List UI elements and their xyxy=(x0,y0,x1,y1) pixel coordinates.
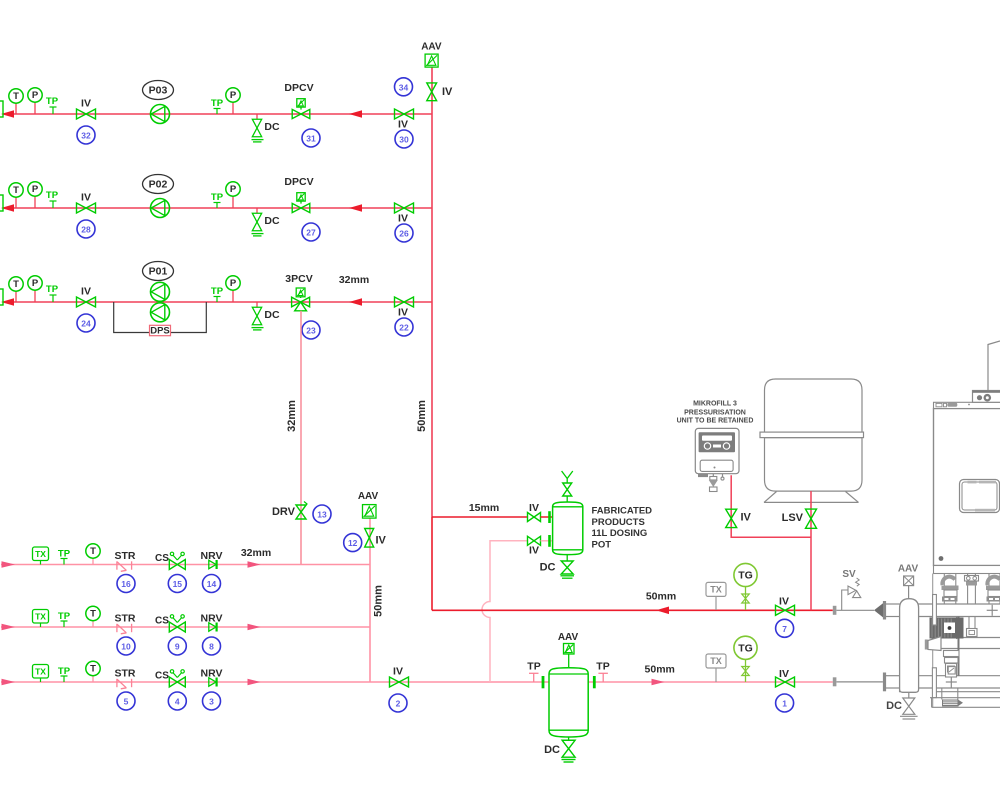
svg-text:IV: IV xyxy=(393,666,403,678)
svg-text:13: 13 xyxy=(317,510,327,520)
test point TP buffer left xyxy=(527,660,540,682)
pressure gauge P after pump row P03 xyxy=(226,88,240,114)
svg-text:MIKROFILL 3: MIKROFILL 3 xyxy=(693,401,737,408)
break flange return xyxy=(833,677,837,686)
svg-text:9: 9 xyxy=(175,642,180,652)
thermometer T row P03 xyxy=(9,89,23,114)
tag circle 2 xyxy=(389,694,407,712)
pressure gauge P after pump row P01 xyxy=(226,276,240,302)
DPS sensing loop wire xyxy=(114,302,207,333)
svg-text:P01: P01 xyxy=(149,266,168,278)
non return valve NRV lower row C xyxy=(201,668,223,687)
isolating valve IV dosing bottom xyxy=(528,536,541,556)
flow arrow mid row P02 xyxy=(349,204,362,212)
pressure gauge P after pump row P02 xyxy=(226,182,240,208)
tag circle 27 xyxy=(302,223,320,241)
svg-text:P03: P03 xyxy=(149,85,168,97)
svg-text:TP: TP xyxy=(58,611,71,622)
tag circle 34 xyxy=(395,78,413,96)
tag circle 13 xyxy=(313,505,331,523)
wire expansion vessel to system xyxy=(810,491,812,610)
drain cock DC buffer vessel xyxy=(544,737,575,762)
svg-text:IV: IV xyxy=(529,545,539,557)
tag circle 7 xyxy=(776,619,794,637)
svg-text:32mm: 32mm xyxy=(241,547,271,559)
svg-text:TX: TX xyxy=(35,549,46,559)
tag circle 1 xyxy=(776,694,794,712)
isolating valve IV 30 xyxy=(395,109,414,131)
pressure gauge P row P02 xyxy=(28,182,42,208)
svg-text:DC: DC xyxy=(264,215,280,227)
sensor TX lower line xyxy=(706,654,726,682)
svg-text:50mm: 50mm xyxy=(646,591,676,603)
expansion vessel label xyxy=(787,400,838,424)
svg-text:50mm: 50mm xyxy=(416,400,428,432)
svg-text:P: P xyxy=(230,278,237,289)
tag circle 10 xyxy=(117,637,135,655)
riser pair to fitting xyxy=(967,617,978,637)
drain cock DC dosing pot xyxy=(540,555,574,579)
svg-text:PRODUCTS: PRODUCTS xyxy=(592,517,645,528)
svg-text:STR: STR xyxy=(115,550,136,562)
flow arrow mid lower row B xyxy=(248,624,261,630)
tag circle 31 xyxy=(302,129,320,147)
cross marker return xyxy=(946,677,957,688)
thermometer T row P01 xyxy=(9,277,23,302)
svg-text:28: 28 xyxy=(81,225,91,235)
wire Mikrofill to system xyxy=(731,475,811,537)
svg-text:TP: TP xyxy=(58,549,71,560)
flow arrow mid lower row C xyxy=(248,679,261,685)
svg-text:1: 1 xyxy=(782,699,787,709)
boiler base band xyxy=(934,566,1000,574)
flow arrow mid row P03 xyxy=(349,110,362,118)
svg-text:DC: DC xyxy=(540,562,556,574)
svg-text:DPCV: DPCV xyxy=(284,82,313,94)
svg-text:50mm: 50mm xyxy=(373,585,385,617)
flow arrow left edge row P02 xyxy=(1,204,14,212)
wire 50mm riser xyxy=(431,67,433,610)
tag circle 4 xyxy=(168,692,186,710)
wire gray stub return xyxy=(837,681,883,683)
svg-text:31: 31 xyxy=(306,134,316,144)
flange dosing top xyxy=(548,511,551,523)
air vent AAV top xyxy=(421,42,442,68)
svg-text:PRESSURISATION: PRESSURISATION xyxy=(684,409,746,416)
cropped valve stub left edge row P01 xyxy=(0,289,3,305)
svg-text:POT: POT xyxy=(592,539,612,550)
sensor TX lower row C xyxy=(33,665,49,683)
svg-text:TP: TP xyxy=(46,284,59,295)
wire dosing bottom stub xyxy=(541,540,553,542)
double regulating valve DRV xyxy=(272,502,307,520)
3PCV three port control valve xyxy=(285,273,312,311)
boiler pump drop pipe xyxy=(958,617,960,676)
svg-text:TG: TG xyxy=(738,642,753,654)
tag circle 8 xyxy=(203,637,221,655)
svg-text:TP: TP xyxy=(211,286,224,297)
pump P02 label xyxy=(143,175,174,194)
isolating valve IV 28 xyxy=(77,192,96,214)
pump P03 label xyxy=(143,81,174,100)
svg-text:IV: IV xyxy=(442,86,453,98)
test point TP lower row B xyxy=(58,611,71,627)
svg-text:T: T xyxy=(90,546,96,557)
thermometer T row P02 xyxy=(9,183,23,208)
DPCV differential pressure control valve row P02 xyxy=(284,176,313,213)
cropped valve stub left edge row P03 xyxy=(0,101,3,117)
svg-text:22: 22 xyxy=(399,323,409,333)
50mm vertical size label riser xyxy=(373,585,385,617)
svg-text:IV: IV xyxy=(81,192,91,204)
svg-text:14: 14 xyxy=(207,579,217,589)
commissioning set CS lower row A xyxy=(155,552,185,569)
lockshield valve LSV xyxy=(782,509,817,528)
cropped valve stub left edge row P02 xyxy=(0,195,3,211)
tag circle 23 xyxy=(302,321,320,339)
svg-text:30: 30 xyxy=(399,135,409,145)
drain cock DC row P03 xyxy=(252,114,280,142)
tag circle 15 xyxy=(168,575,186,593)
test point TP row P03 xyxy=(46,96,59,114)
test point TP after pump row P02 xyxy=(211,192,224,208)
flow arrow main return xyxy=(656,607,669,615)
boiler riser 1 xyxy=(942,574,959,605)
thermometer T lower row A xyxy=(86,544,100,565)
dosing pot vessel xyxy=(553,502,583,555)
flow arrow left edge row P01 xyxy=(1,298,14,306)
pressure gauge P row P03 xyxy=(28,88,42,114)
svg-text:15: 15 xyxy=(173,579,183,589)
air vent AAV header xyxy=(898,564,919,599)
svg-text:CS: CS xyxy=(155,616,169,627)
svg-text:STR: STR xyxy=(115,613,136,625)
thermometer T lower row C xyxy=(86,661,100,682)
flange dosing bottom xyxy=(548,535,551,547)
32mm size label row P01 xyxy=(339,274,369,286)
test point TP row P02 xyxy=(46,190,59,208)
tag circle 16 xyxy=(117,575,135,593)
flange buffer vessel right xyxy=(593,676,596,688)
tag circle 28 xyxy=(77,220,95,238)
isolating valve IV 12 xyxy=(365,529,387,548)
expansion vessel xyxy=(760,379,864,502)
tag circle 14 xyxy=(203,575,221,593)
temperature gauge TG main return xyxy=(734,563,757,610)
svg-text:15mm: 15mm xyxy=(469,502,499,514)
tag circle 5 xyxy=(117,692,135,710)
wire pump row P03 xyxy=(3,113,432,115)
32mm size label lower row A xyxy=(241,547,271,559)
flow arrow left edge lower row B xyxy=(2,624,16,630)
boiler flue xyxy=(988,341,1000,391)
svg-text:P02: P02 xyxy=(149,179,168,191)
temperature gauge TG lower line xyxy=(734,636,757,682)
svg-text:TP: TP xyxy=(46,190,59,201)
isolating valve IV 32 xyxy=(77,98,96,120)
pump P02 xyxy=(151,199,170,218)
drain cock DC header xyxy=(886,692,917,719)
drain cock DC row P01 xyxy=(252,302,280,330)
lower pipe lines xyxy=(930,688,1000,707)
boiler control panel xyxy=(960,480,1000,513)
tag circle 32 xyxy=(77,126,95,144)
isolating valve IV 22 xyxy=(395,297,414,319)
svg-text:IV: IV xyxy=(398,213,408,225)
wire dosing pot return line xyxy=(482,541,528,682)
svg-text:DPCV: DPCV xyxy=(284,176,313,188)
50mm vertical size label xyxy=(416,400,428,432)
non return valve NRV lower row B xyxy=(201,613,223,632)
svg-text:32mm: 32mm xyxy=(339,274,369,286)
wire dosing pot fill line top stub xyxy=(541,516,553,518)
svg-text:CS: CS xyxy=(155,671,169,682)
svg-text:IV: IV xyxy=(398,307,408,319)
drain cock DC row P02 xyxy=(252,208,280,236)
svg-text:3: 3 xyxy=(209,697,214,707)
gas train fitting xyxy=(942,700,963,707)
svg-text:32mm: 32mm xyxy=(286,400,298,432)
buffer vessel xyxy=(549,668,588,737)
svg-text:TX: TX xyxy=(35,666,46,676)
tag circle 9 xyxy=(168,637,186,655)
test point TP lower row A xyxy=(58,549,71,565)
isolating valve IV Mikrofill xyxy=(726,509,752,527)
svg-text:IV: IV xyxy=(398,119,408,131)
wire pump row P01 xyxy=(3,301,432,303)
flow arrow mid lower row A xyxy=(248,561,261,567)
test point TP after pump row P03 xyxy=(211,98,224,114)
svg-text:8: 8 xyxy=(209,642,214,652)
svg-text:50mm: 50mm xyxy=(645,664,675,676)
svg-text:IV: IV xyxy=(779,668,789,680)
sensor TX lower row A xyxy=(33,547,49,565)
svg-text:AAV: AAV xyxy=(898,564,919,575)
svg-text:LSV: LSV xyxy=(782,512,804,524)
wire common riser 50mm xyxy=(369,518,371,682)
svg-text:TX: TX xyxy=(35,611,46,621)
wire 32mm branch from 3PCV xyxy=(300,311,302,565)
strainer STR lower row A xyxy=(115,550,136,571)
cross marker supply xyxy=(987,605,998,616)
svg-text:26: 26 xyxy=(399,229,409,239)
low loss header xyxy=(900,599,919,693)
wire lower row B xyxy=(1,626,370,628)
svg-text:TG: TG xyxy=(738,570,753,582)
flange supply xyxy=(883,601,886,620)
svg-text:27: 27 xyxy=(306,228,316,238)
svg-text:TP: TP xyxy=(527,660,540,672)
DPCV differential pressure control valve row P03 xyxy=(284,82,313,119)
tag circle 26 xyxy=(395,224,413,242)
strainer STR lower row C xyxy=(115,668,136,689)
svg-text:32: 32 xyxy=(81,131,91,141)
boiler supply pipe xyxy=(885,604,1000,617)
wire main 50mm return xyxy=(432,609,833,611)
pipe bell reducer xyxy=(925,637,941,651)
svg-text:CS: CS xyxy=(155,553,169,564)
boiler return pipe xyxy=(885,676,1000,688)
safety valve SV xyxy=(842,569,861,610)
svg-text:T: T xyxy=(13,279,19,290)
svg-text:34: 34 xyxy=(399,82,409,92)
pump P01 standby (bottom) xyxy=(151,303,170,322)
dosing pot top vent valve xyxy=(562,471,573,502)
shunt pipe secondary xyxy=(941,638,1000,649)
svg-text:11L DOSING: 11L DOSING xyxy=(592,528,648,539)
flow arrow left edge row P03 xyxy=(1,110,14,118)
pressure gauge P row P01 xyxy=(28,276,42,302)
pump P01 duty (top) xyxy=(151,282,170,301)
flange buffer vessel left xyxy=(542,676,545,688)
commissioning set CS lower row B xyxy=(155,615,185,632)
svg-text:4: 4 xyxy=(175,697,180,707)
15mm size label xyxy=(469,502,499,514)
svg-text:TX: TX xyxy=(710,585,722,595)
isolating valve IV 7 xyxy=(776,596,795,616)
flow arrow mid row P01 xyxy=(349,298,362,306)
test point TP lower row C xyxy=(58,666,71,682)
boiler shunt pump xyxy=(930,618,964,639)
svg-text:TP: TP xyxy=(58,666,71,677)
pump P03 xyxy=(151,105,170,124)
wire pump row P02 xyxy=(3,207,432,209)
svg-text:IV: IV xyxy=(529,502,539,514)
flange plate over supply xyxy=(933,595,937,626)
sensor TX lower row B xyxy=(33,610,49,628)
svg-text:16: 16 xyxy=(121,579,131,589)
Mikrofill pressurisation unit xyxy=(695,428,739,491)
isolating valve IV dosing top xyxy=(528,502,541,522)
svg-text:T: T xyxy=(90,664,96,675)
isolating valve IV 2 xyxy=(390,666,409,688)
svg-text:AAV: AAV xyxy=(358,491,379,502)
tag circle 12 xyxy=(344,534,362,552)
wire 15mm dosing line xyxy=(432,516,528,518)
svg-text:DRV: DRV xyxy=(272,506,296,518)
isolating valve IV 24 xyxy=(77,286,96,308)
isolating valve IV below AAV xyxy=(427,83,453,101)
flange plate over return xyxy=(932,668,936,698)
wire gray stub supply xyxy=(837,609,875,611)
svg-text:IV: IV xyxy=(81,286,91,298)
wire lower row A xyxy=(1,564,370,566)
tag circle 22 xyxy=(395,318,413,336)
svg-text:P: P xyxy=(32,90,39,101)
thermometer T lower row B xyxy=(86,606,100,627)
sensor TX main return xyxy=(706,582,726,610)
svg-text:FABRICATED: FABRICATED xyxy=(592,506,653,517)
test point TP after pump row P01 xyxy=(211,286,224,302)
svg-text:NRV: NRV xyxy=(201,613,223,625)
Mikrofill unit label xyxy=(677,401,754,425)
svg-text:UNIT TO BE RETAINED: UNIT TO BE RETAINED xyxy=(677,417,754,424)
svg-text:T: T xyxy=(13,91,19,102)
flange return xyxy=(883,673,886,692)
boiler top connection box xyxy=(973,391,1000,403)
32mm vertical size label xyxy=(286,400,298,432)
svg-text:12: 12 xyxy=(348,538,358,548)
svg-text:NRV: NRV xyxy=(201,668,223,680)
svg-text:AAV: AAV xyxy=(558,632,579,643)
50mm size label main return xyxy=(646,591,676,603)
break flange supply xyxy=(833,606,837,615)
svg-text:3PCV: 3PCV xyxy=(285,273,312,285)
svg-text:IV: IV xyxy=(376,535,387,547)
svg-text:TP: TP xyxy=(211,192,224,203)
commissioning set CS lower row C xyxy=(155,670,185,687)
svg-text:DC: DC xyxy=(544,744,560,756)
svg-text:NRV: NRV xyxy=(201,550,223,562)
flow arrow lower line xyxy=(652,679,665,685)
svg-text:24: 24 xyxy=(81,319,91,329)
boiler frame left edge xyxy=(932,574,934,708)
svg-text:IV: IV xyxy=(741,512,752,524)
svg-text:7: 7 xyxy=(782,624,787,634)
boiler badge dot xyxy=(939,556,944,561)
small fitting on riser xyxy=(948,667,955,674)
isolating valve IV 26 xyxy=(395,203,414,225)
boiler cabinet xyxy=(934,402,1000,565)
50mm size label lower line xyxy=(645,664,675,676)
svg-text:STR: STR xyxy=(115,668,136,680)
svg-text:T: T xyxy=(90,609,96,620)
svg-text:TP: TP xyxy=(211,98,224,109)
tag circle 24 xyxy=(77,314,95,332)
tag circle 3 xyxy=(203,692,221,710)
boiler valve stack below pump xyxy=(944,651,960,678)
svg-text:P: P xyxy=(32,278,39,289)
svg-text:DPS: DPS xyxy=(150,325,170,336)
boiler riser 2 xyxy=(965,574,979,605)
svg-text:DC: DC xyxy=(264,309,280,321)
svg-text:P: P xyxy=(32,184,39,195)
air vent AAV on common riser xyxy=(358,491,379,518)
boiler riser 3 xyxy=(986,574,1000,605)
strainer STR lower row B xyxy=(115,613,136,634)
svg-text:23: 23 xyxy=(306,326,316,336)
svg-text:DC: DC xyxy=(264,121,280,133)
DPS differential pressure switch xyxy=(150,325,171,336)
svg-text:IV: IV xyxy=(779,596,789,608)
test point TP buffer right xyxy=(596,660,609,682)
svg-text:TX: TX xyxy=(710,656,722,666)
pump P01 label xyxy=(143,262,174,281)
svg-text:T: T xyxy=(13,185,19,196)
svg-text:IV: IV xyxy=(81,98,91,110)
svg-text:10: 10 xyxy=(121,642,131,652)
svg-text:5: 5 xyxy=(124,697,129,707)
air vent AAV buffer vessel xyxy=(558,632,579,668)
svg-text:P: P xyxy=(230,184,237,195)
dosing pot text label xyxy=(592,506,653,551)
wire lower row C xyxy=(1,681,833,683)
svg-text:AAV: AAV xyxy=(421,42,442,53)
reducer cone supply xyxy=(874,603,883,617)
svg-text:TP: TP xyxy=(596,660,609,672)
test point TP row P01 xyxy=(46,284,59,302)
isolating valve IV 1 xyxy=(776,668,795,687)
tag circle 30 xyxy=(395,130,413,148)
svg-text:SV: SV xyxy=(842,569,856,580)
flow arrow left edge lower row C xyxy=(2,679,16,685)
flow arrow left edge lower row A xyxy=(2,561,16,567)
svg-text:2: 2 xyxy=(396,699,401,709)
svg-text:P: P xyxy=(230,90,237,101)
svg-text:TP: TP xyxy=(46,96,59,107)
non return valve NRV lower row A xyxy=(201,550,223,569)
svg-text:DC: DC xyxy=(886,700,902,712)
